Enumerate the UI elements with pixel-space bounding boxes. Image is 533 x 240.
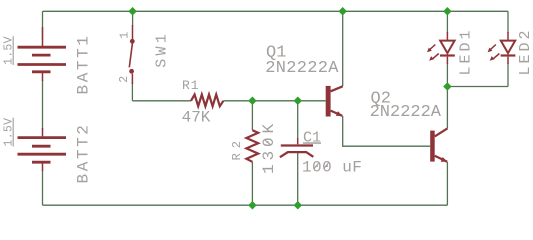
svg-text:2: 2 [118,76,131,83]
svg-text:BATT2: BATT2 [75,122,93,183]
svg-text:1.5V: 1.5V [3,118,16,147]
svg-text:R1: R1 [182,78,200,93]
svg-text:R2: R2 [230,136,244,160]
svg-text:2N2222A: 2N2222A [265,59,339,78]
svg-text:130K: 130K [260,120,278,174]
svg-text:C1: C1 [303,129,321,146]
svg-text:BATT1: BATT1 [75,33,93,94]
svg-text:47K: 47K [182,108,211,126]
svg-text:LED2: LED2 [517,27,533,75]
svg-text:LED1: LED1 [457,27,474,75]
svg-text:2N2222A: 2N2222A [370,103,442,122]
svg-text:100 uF: 100 uF [302,158,362,176]
svg-text:1.5V: 1.5V [3,36,16,65]
svg-text:1: 1 [118,32,132,39]
svg-text:SW1: SW1 [153,31,170,68]
